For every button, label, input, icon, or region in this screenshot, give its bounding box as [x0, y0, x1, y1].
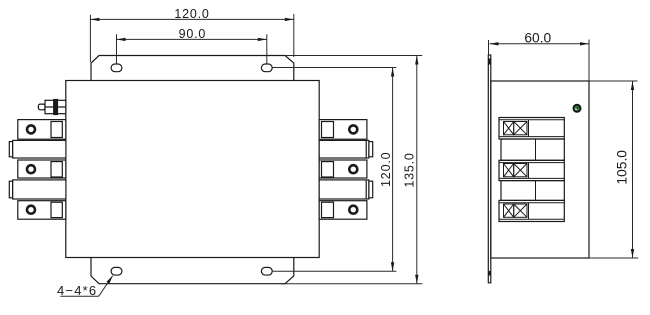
projection line B (slot centre to 120 dim)	[272, 67, 396, 69]
projection line D (flange bottom)	[281, 283, 422, 285]
svg-text:120.0: 120.0	[379, 152, 393, 187]
terminal rows detail (rows 1,3,5)	[499, 120, 564, 219]
row3	[499, 162, 564, 164]
svg-text:4−4*6: 4−4*6	[57, 283, 97, 298]
bottom flange slot right	[261, 267, 272, 275]
top flange slot left	[111, 64, 122, 72]
bottom mounting flange	[91, 258, 294, 284]
projection line A (flange top to 135 dim)	[285, 55, 422, 57]
dim 120.0 top: extension lines	[89, 15, 91, 62]
dim line	[90, 18, 293, 20]
svg-text:135.0: 135.0	[402, 152, 416, 187]
terminal 1 right	[319, 120, 367, 140]
top flange slot right	[261, 64, 272, 72]
spacer 2 left	[9, 181, 12, 198]
LED indicator	[573, 104, 582, 113]
terminal 2 right	[319, 160, 367, 178]
terminal 3 left	[18, 201, 66, 220]
body	[491, 81, 589, 258]
spacer 1 right	[369, 142, 373, 157]
row5	[499, 202, 564, 204]
leader arrowhead	[107, 275, 114, 283]
dim 105.0 extension lines	[590, 80, 638, 82]
arrowheads 120.0 top	[90, 18, 99, 21]
svg-text:120.0: 120.0	[174, 7, 209, 21]
svg-text:105.0: 105.0	[614, 150, 629, 185]
terminal 3 right	[319, 201, 367, 220]
projection line C (bottom slot centre)	[272, 270, 396, 272]
terminal 1 left	[18, 120, 66, 140]
row1	[499, 119, 564, 121]
ground stud	[38, 100, 65, 115]
terminal stack rows	[499, 118, 564, 140]
mounting flange strip	[488, 55, 491, 283]
top mounting flange	[91, 56, 294, 81]
bottom flange slot left	[111, 267, 122, 275]
right terminal blocks	[319, 120, 372, 220]
leader 4-4*6	[99, 276, 113, 296]
spacer 2 right	[369, 181, 373, 198]
spacer 1 left	[9, 142, 12, 157]
main body	[66, 81, 319, 258]
terminal 2 left	[18, 160, 66, 178]
arrowheads 90.0	[117, 38, 126, 41]
slot edge-on marks in flange strip	[488, 59, 491, 65]
left terminal blocks	[9, 120, 66, 220]
dim 60.0	[488, 40, 490, 56]
svg-text:60.0: 60.0	[524, 30, 551, 45]
arrowheads vertical 120.0	[391, 68, 394, 77]
arrowheads vertical 135.0	[415, 56, 418, 65]
plain row dividers	[535, 139, 537, 160]
vertical dim 135.0	[416, 56, 418, 284]
vertical dim 120.0	[392, 68, 394, 272]
svg-text:90.0: 90.0	[179, 27, 207, 41]
dim 90.0: extension lines	[116, 34, 118, 63]
